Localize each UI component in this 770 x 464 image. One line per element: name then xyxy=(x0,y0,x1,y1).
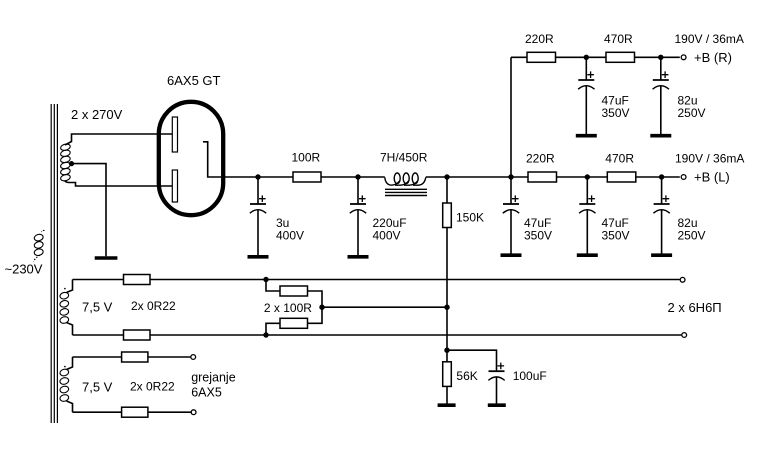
svg-text:7H/450R: 7H/450R xyxy=(380,151,428,165)
svg-text:7,5 V: 7,5 V xyxy=(82,300,113,315)
wire: hum mid to divider xyxy=(322,306,447,308)
svg-text:2 x 270V: 2 x 270V xyxy=(71,107,123,122)
svg-text:6AX5 GT: 6AX5 GT xyxy=(167,73,221,88)
resistor 470R (R channel) xyxy=(606,52,635,62)
resistor 0R22 #4 xyxy=(122,407,148,417)
junction: 47uF L node xyxy=(585,174,590,179)
svg-text:+B (L): +B (L) xyxy=(694,170,730,185)
ground (47uF L1) xyxy=(501,253,522,257)
svg-text:100uF: 100uF xyxy=(513,369,547,383)
wire: 270V bottom lead to plate xyxy=(65,181,173,187)
capacitor 220uF plus xyxy=(359,195,366,202)
wire: main B+ rail left segment xyxy=(258,176,385,178)
junction: 150K node xyxy=(444,174,449,179)
svg-text:350V: 350V xyxy=(602,229,630,243)
wire: 150K upper lead xyxy=(446,177,448,203)
svg-text:6AX5: 6AX5 xyxy=(191,386,222,400)
capacitor 100uF plates xyxy=(489,370,505,372)
resistor 0R22 #1 xyxy=(124,275,151,285)
svg-text:190V / 36mA: 190V / 36mA xyxy=(675,32,744,46)
capacitor 220uF plates xyxy=(350,203,366,205)
capacitor 47uF (L1): leads and plates xyxy=(510,177,512,204)
wire: 56K lower lead xyxy=(446,386,448,403)
svg-text:+B (R): +B (R) xyxy=(694,50,732,65)
junction: 220uF cap node xyxy=(355,174,360,179)
resistor 220R (R channel) xyxy=(527,52,556,62)
wire: center tap to ground xyxy=(70,164,107,257)
junction: 3u cap node xyxy=(255,174,260,179)
wire: heater1 bottom rail xyxy=(73,334,682,336)
wire: heater1 top lead xyxy=(67,280,73,293)
capacitor 220uF: lead xyxy=(357,177,359,204)
junction: center tap xyxy=(69,161,74,166)
capacitor 82u (L): leads and plates xyxy=(661,177,663,204)
capacitor 3u plates xyxy=(250,203,266,205)
junction: 82u R node xyxy=(658,55,663,60)
resistor 100R (hum pot upper) xyxy=(266,280,280,292)
svg-text:2x 0R22: 2x 0R22 xyxy=(130,380,175,394)
ground (220uF) xyxy=(348,255,369,259)
transformer core xyxy=(51,104,57,423)
wire: riser to top branch xyxy=(510,57,512,177)
ground (100uF) xyxy=(488,403,506,407)
wire: main B+ rail right segment xyxy=(426,176,680,178)
terminal heater2 bottom xyxy=(191,410,196,415)
svg-text:220R: 220R xyxy=(526,152,555,166)
capacitor 220uF lower lead xyxy=(357,210,359,255)
svg-text:400V: 400V xyxy=(276,229,304,243)
ground (47uF L2) xyxy=(577,253,598,257)
capacitor 47uF (R): leads and plates xyxy=(585,57,587,80)
resistor 100R xyxy=(293,172,321,182)
resistor 56K xyxy=(443,362,452,387)
tube plate 2 xyxy=(172,170,177,202)
resistor 0R22 #2 xyxy=(124,330,151,340)
wire: top branch rail xyxy=(511,56,680,58)
svg-text:2 x 6Н6П: 2 x 6Н6П xyxy=(668,300,722,315)
svg-text:350V: 350V xyxy=(602,106,630,120)
ground (82u L) xyxy=(651,253,672,257)
heater winding 7.5V #2 xyxy=(59,368,69,402)
choke core xyxy=(385,189,427,195)
wire: 150K lower lead down to 56K xyxy=(446,228,448,362)
svg-text:250V: 250V xyxy=(678,106,706,120)
resistor 100R (hum pot lower) xyxy=(266,323,280,335)
junction: 56K node xyxy=(444,348,449,353)
junction: 47uF R node xyxy=(584,55,589,60)
svg-text:grejanje: grejanje xyxy=(191,371,236,385)
wire: heater1 bottom lead xyxy=(67,323,73,336)
wire: 56K node to 100uF xyxy=(447,350,497,371)
svg-text:100R: 100R xyxy=(292,151,321,165)
ground (center tap) xyxy=(95,256,118,260)
wire: heater1 top rail xyxy=(73,279,680,281)
junction: hum mid xyxy=(319,305,324,310)
secondary winding 2x270V xyxy=(60,143,71,182)
terminal heater2 top xyxy=(191,355,196,360)
svg-text:~230V: ~230V xyxy=(5,262,43,277)
ground (47uF R) xyxy=(576,134,597,138)
svg-text:2x 0R22: 2x 0R22 xyxy=(131,299,176,313)
winding start mark heater2 xyxy=(64,366,66,368)
capacitor 3u lower lead xyxy=(257,210,259,255)
resistor 150K xyxy=(443,203,452,228)
choke 7H/450R xyxy=(385,173,426,185)
svg-text:400V: 400V xyxy=(373,229,401,243)
svg-text:7,5 V: 7,5 V xyxy=(82,380,113,395)
wire: heater2 bottom rail xyxy=(73,411,192,413)
wire: 270V top lead to plate xyxy=(65,134,172,145)
svg-text:150K: 150K xyxy=(456,211,484,225)
svg-text:2 x 100R: 2 x 100R xyxy=(264,301,312,315)
junction: divider tie xyxy=(444,305,449,310)
tube plate 1 xyxy=(172,117,177,152)
resistor 470R (L channel) xyxy=(607,172,636,182)
svg-text:220R: 220R xyxy=(525,32,554,46)
svg-text:250V: 250V xyxy=(678,229,706,243)
junction: heater1 top tap xyxy=(263,277,268,282)
svg-text:190V / 36mA: 190V / 36mA xyxy=(675,152,744,166)
primary winding ~230V xyxy=(34,230,45,261)
capacitor 3u plus xyxy=(259,195,266,202)
ground (56K) xyxy=(438,403,456,407)
capacitor 47uF (L2): leads and plates xyxy=(586,177,588,204)
winding start mark heater1 xyxy=(64,288,66,290)
wire: heater2 top rail xyxy=(73,356,191,358)
terminal heater1 top xyxy=(680,277,685,282)
terminal +B (L) xyxy=(681,175,686,180)
svg-text:56K: 56K xyxy=(456,369,477,383)
terminal +B (R) xyxy=(681,55,686,60)
wire: heater2 bottom lead xyxy=(67,401,73,412)
junction: branch feed node xyxy=(508,174,513,179)
resistor 220R (L channel) xyxy=(528,172,557,182)
junction: heater1 bottom tap xyxy=(263,332,268,337)
capacitor 82u (R): leads and plates xyxy=(660,57,662,80)
heater winding 7.5V #1 xyxy=(59,292,69,325)
capacitor 3u: lead xyxy=(257,177,259,204)
resistor 0R22 #3 xyxy=(122,352,148,362)
tube cathode xyxy=(203,142,258,177)
ground (3u) xyxy=(248,255,269,259)
terminal heater1 bottom xyxy=(682,333,687,338)
svg-text:470R: 470R xyxy=(605,152,634,166)
svg-text:470R: 470R xyxy=(604,32,633,46)
wire: heater2 top lead xyxy=(67,357,73,370)
tube U1 6AX5 GT envelope xyxy=(159,102,223,215)
svg-text:350V: 350V xyxy=(524,229,552,243)
ground (82u R) xyxy=(650,134,671,138)
junction: 82u L node xyxy=(659,174,664,179)
